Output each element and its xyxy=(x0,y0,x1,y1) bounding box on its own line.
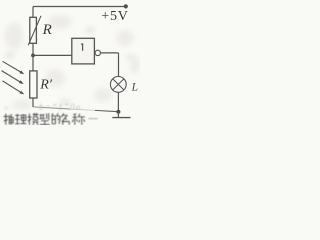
svg-text:L: L xyxy=(131,81,138,93)
svg-text:R′: R′ xyxy=(39,78,53,93)
svg-text:+5V: +5V xyxy=(101,9,128,24)
svg-text:·iг.: ·iг. xyxy=(2,104,10,112)
svg-text:R: R xyxy=(42,22,52,38)
svg-text:b=“1”0o: b=“1”0o xyxy=(39,102,81,112)
